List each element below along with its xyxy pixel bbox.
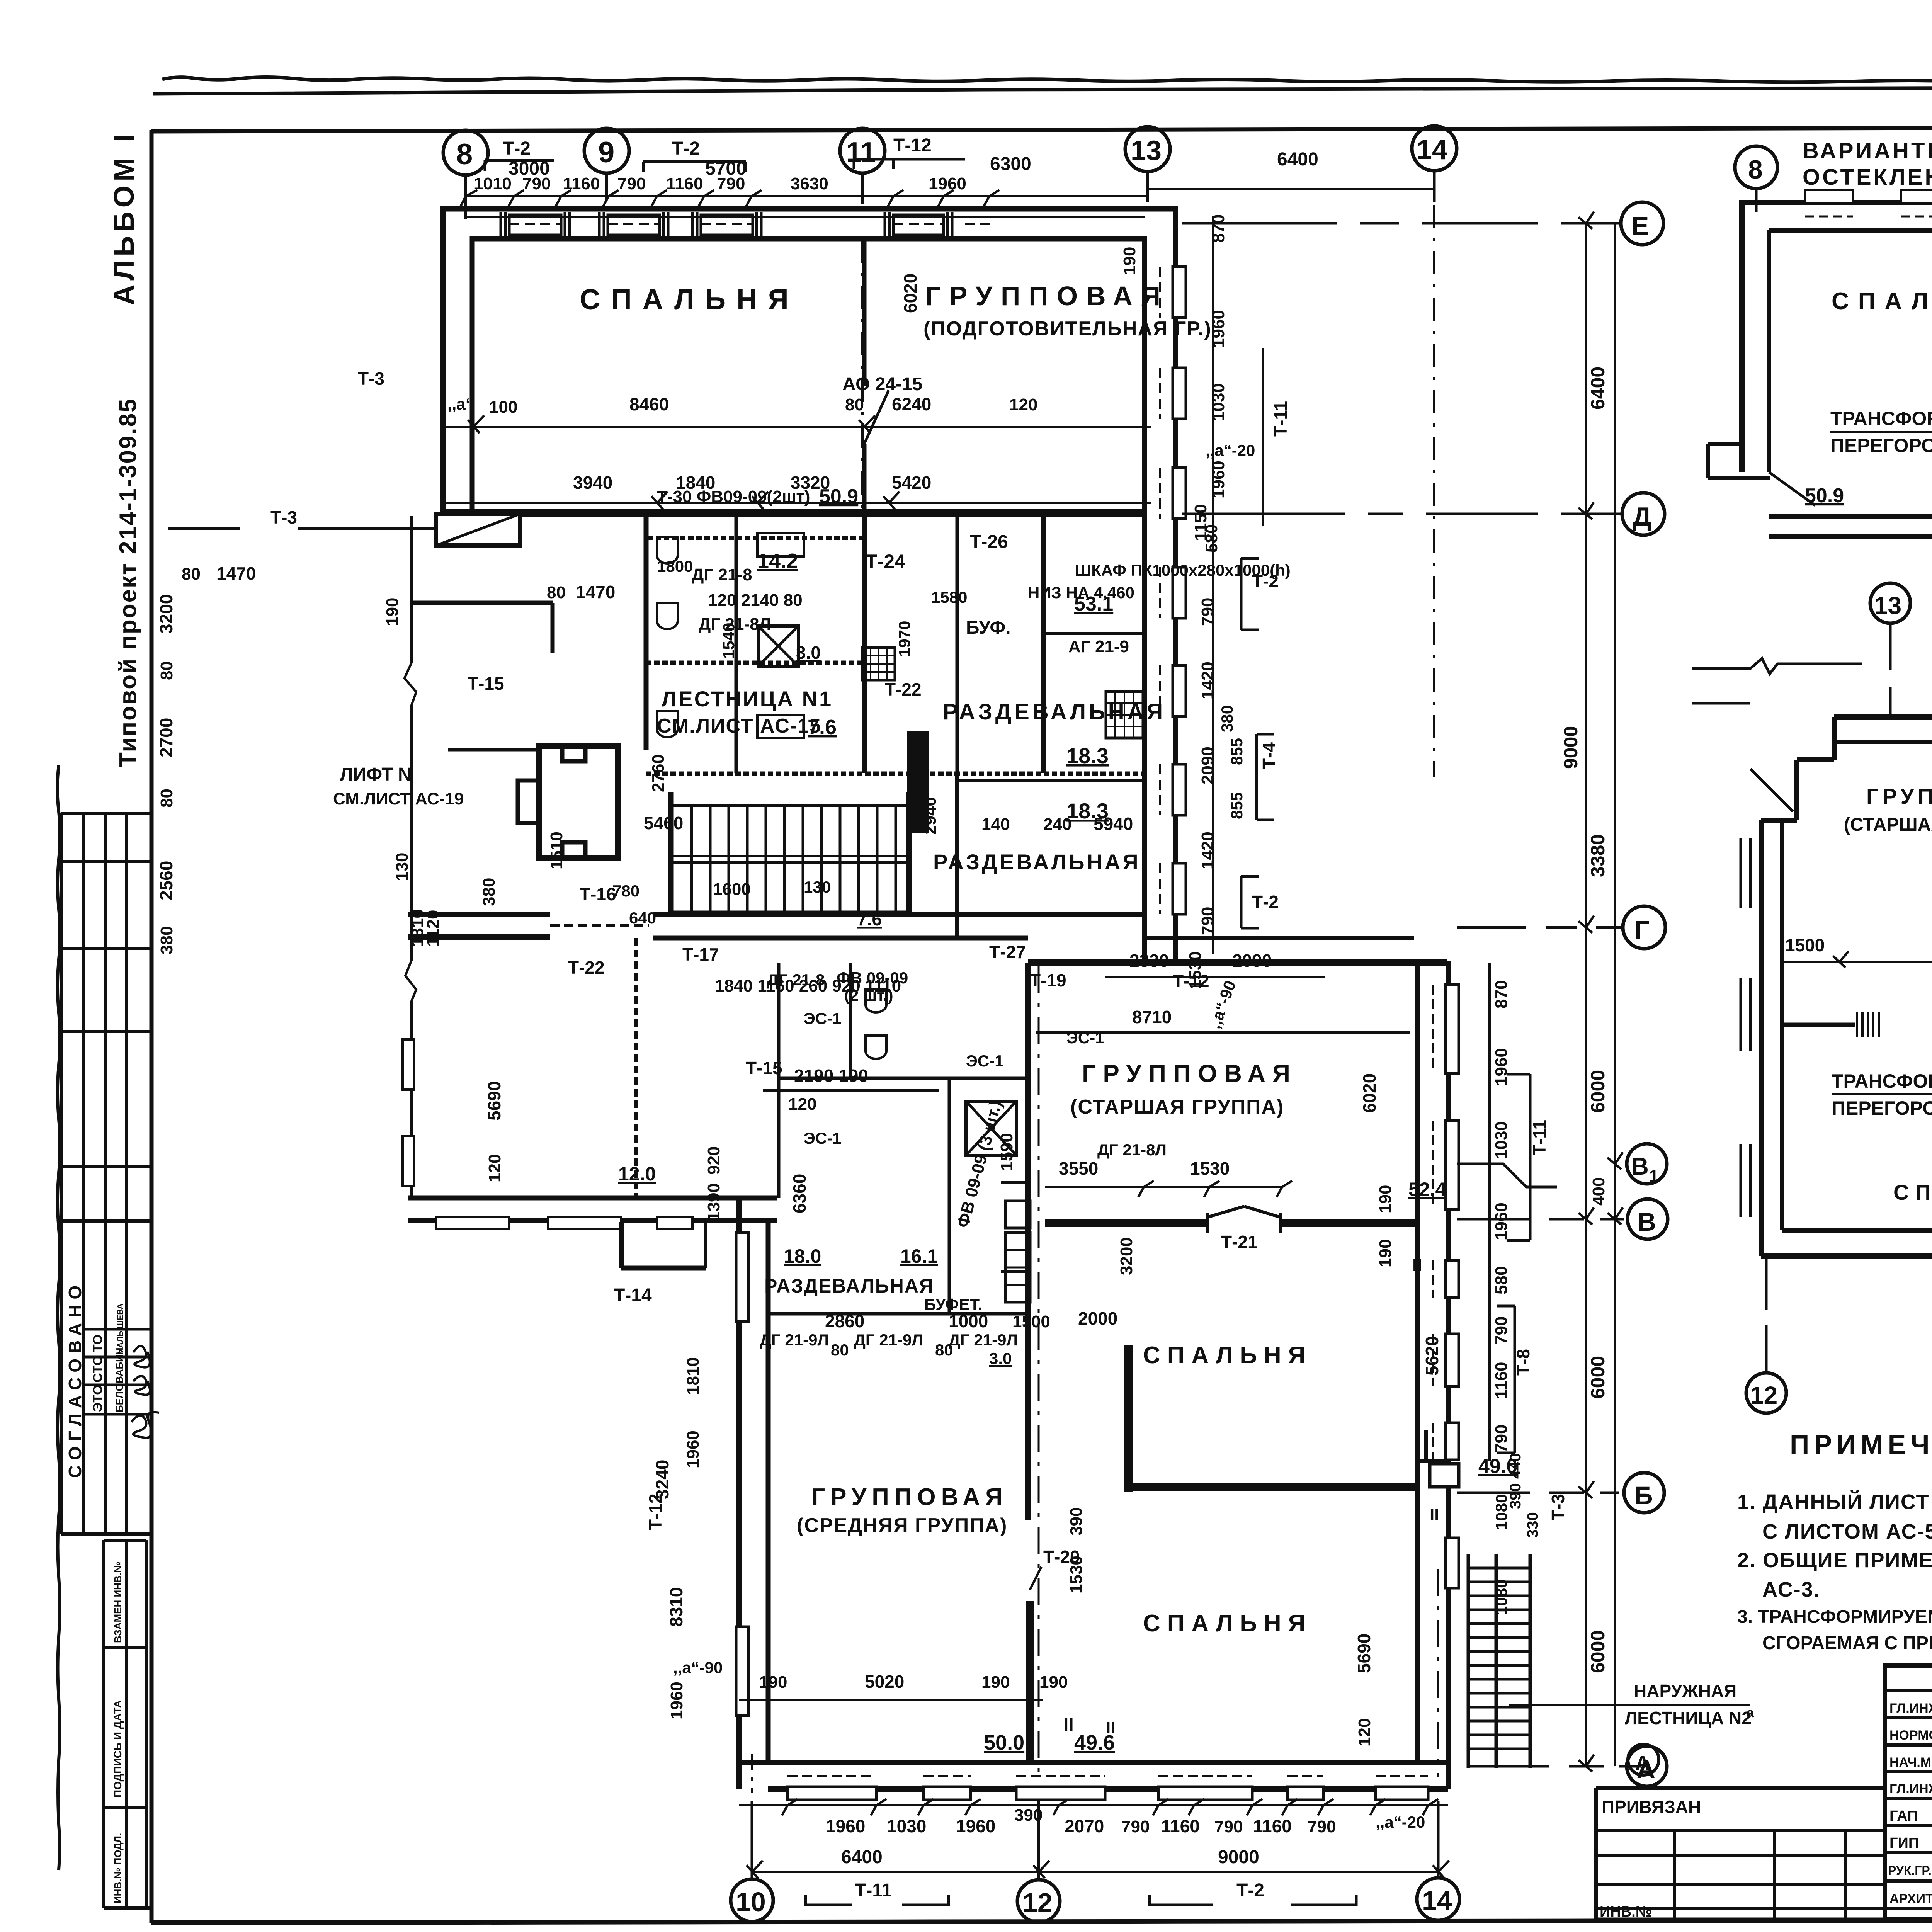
svg-text:,,а“-90: ,,а“-90: [673, 1658, 723, 1677]
svg-text:790: 790: [1492, 1316, 1511, 1345]
svg-text:ЛЕСТНИЦА N2: ЛЕСТНИЦА N2: [1625, 1708, 1752, 1728]
svg-text:790: 790: [1121, 1817, 1150, 1836]
svg-text:ПРИВЯЗАН: ПРИВЯЗАН: [1602, 1797, 1701, 1817]
svg-text:190: 190: [1039, 1673, 1068, 1692]
svg-text:6400: 6400: [1587, 367, 1609, 410]
svg-text:7.6: 7.6: [808, 716, 837, 739]
partition from lift to stair: [644, 515, 649, 750]
svg-text:Т-11: Т-11: [1270, 401, 1291, 437]
svg-text:Т-3: Т-3: [358, 369, 384, 389]
А axis circle left of titleblock: [1628, 1744, 1659, 1775]
svg-text:3. ТРАНСФОРМИРУЕМАЯ ПЕРЕГОРОД: 3. ТРАНСФОРМИРУЕМАЯ ПЕРЕГОРОДКА -ТРУДНО-: [1737, 1607, 1932, 1627]
right window band outer: [1173, 206, 1178, 963]
svg-text:190: 190: [1120, 247, 1139, 275]
svg-text:190: 190: [759, 1673, 787, 1692]
раздевальная 18.0/16.1 block: [777, 963, 781, 1198]
svg-text:ТРАНСФОРМИРУЕМАЯ: ТРАНСФОРМИРУЕМАЯ: [1832, 1070, 1932, 1092]
svg-text:190: 190: [1376, 1239, 1395, 1267]
svg-text:НОРМОКОНТР.: НОРМОКОНТР.: [1889, 1728, 1932, 1743]
svg-text:9: 9: [598, 136, 614, 169]
svg-text:СПАЛЬНЯ: СПАЛЬНЯ: [1832, 288, 1932, 315]
svg-text:ТРАНСФОРМИРУЕМАЯ: ТРАНСФОРМИРУЕМАЯ: [1830, 408, 1932, 429]
right window band inner: [1142, 236, 1147, 963]
svg-text:Т-3: Т-3: [1548, 1494, 1568, 1520]
svg-text:6000: 6000: [1587, 1070, 1609, 1113]
svg-text:870: 870: [1492, 980, 1511, 1009]
top wall: [1740, 200, 1932, 205]
left wall inner: [470, 236, 475, 512]
svg-text:ГИП: ГИП: [1889, 1835, 1919, 1851]
svg-text:380: 380: [157, 926, 176, 954]
svg-text:МАЛЫШЕВА: МАЛЫШЕВА: [116, 1303, 125, 1355]
svg-text:2700: 2700: [156, 718, 176, 757]
left wall outer: [440, 206, 446, 515]
outer box: [1885, 1665, 1932, 1920]
svg-text:6000: 6000: [1587, 1630, 1609, 1673]
svg-text:9000: 9000: [1218, 1847, 1259, 1867]
svg-text:СТО: СТО: [90, 1355, 105, 1383]
svg-text:14: 14: [1422, 1886, 1452, 1916]
svg-text:1: 1: [1649, 1167, 1658, 1185]
svg-text:790: 790: [522, 174, 551, 193]
svg-text:II: II: [1063, 1715, 1074, 1735]
svg-text:780: 780: [612, 882, 639, 900]
svg-text:130: 130: [393, 853, 412, 881]
axis circles: [1870, 583, 1910, 623]
torn paper top edge: [162, 77, 1932, 83]
svg-text:ЛИФТ N: ЛИФТ N: [340, 764, 412, 785]
svg-text:2090: 2090: [1232, 951, 1272, 971]
break line left edge: [405, 516, 416, 1198]
svg-text:1030: 1030: [1209, 383, 1228, 421]
svg-text:В: В: [1631, 1153, 1649, 1180]
toilet fixtures: [657, 537, 678, 737]
svg-text:120 2140 80: 120 2140 80: [708, 591, 803, 610]
lower label strip: [102, 1540, 105, 1908]
svg-text:а: а: [1747, 1706, 1754, 1720]
svg-text:12: 12: [1750, 1381, 1777, 1409]
svg-text:870: 870: [1209, 214, 1228, 243]
svg-text:ОСТЕКЛЕННОЙ ПЕРЕГОРОДКИ: ОСТЕКЛЕННОЙ ПЕРЕГОРОДКИ: [1803, 165, 1932, 190]
svg-text:Б: Б: [1634, 1481, 1653, 1510]
svg-text:2940: 2940: [921, 797, 940, 835]
svg-text:Т-11: Т-11: [855, 1880, 892, 1901]
names table horizontals: [1885, 1689, 1932, 1692]
svg-text:СПАЛЬНЯ: СПАЛЬНЯ: [580, 283, 799, 315]
svg-text:5690: 5690: [1354, 1634, 1374, 1673]
svg-text:ПОДПИСЬ И ДАТА: ПОДПИСЬ И ДАТА: [112, 1700, 124, 1798]
svg-text:330: 330: [1524, 1512, 1541, 1538]
svg-text:(СТАРШАЯ ГРУППА): (СТАРШАЯ ГРУППА): [1844, 815, 1932, 835]
svg-text:1510: 1510: [547, 832, 566, 869]
right axis circles main plan: [1621, 202, 1663, 245]
svg-text:80: 80: [845, 395, 864, 414]
svg-text:80: 80: [935, 1341, 953, 1359]
svg-text:1810: 1810: [684, 1357, 702, 1395]
svg-text:ИНВ.№: ИНВ.№: [1600, 1904, 1652, 1920]
svg-text:Т-21: Т-21: [1221, 1232, 1258, 1252]
svg-text:СГОРАЕМАЯ С ПРЕДЕЛОМ ОГНЕСТО: СГОРАЕМАЯ С ПРЕДЕЛОМ ОГНЕСТОЙКОСТИ 1Ч.: [1762, 1632, 1932, 1653]
svg-text:190: 190: [1376, 1185, 1395, 1213]
svg-text:ПРИМЕЧАНИЯ: ПРИМЕЧАНИЯ: [1790, 1429, 1932, 1459]
svg-text:3200: 3200: [1117, 1237, 1136, 1275]
svg-text:СПАЛЬНЯ: СПАЛЬНЯ: [1143, 1610, 1312, 1637]
svg-text:1010: 1010: [474, 174, 512, 193]
svg-text:8460: 8460: [629, 394, 669, 414]
svg-text:8: 8: [456, 138, 473, 171]
svg-text:ИНВ.№ ПОДЛ.: ИНВ.№ ПОДЛ.: [112, 1833, 124, 1903]
svg-text:СМ.ЛИСТ АС-19: СМ.ЛИСТ АС-19: [333, 789, 464, 808]
svg-text:(СТАРШАЯ ГРУППА): (СТАРШАЯ ГРУППА): [1070, 1096, 1284, 1118]
svg-text:Т-2: Т-2: [1236, 1880, 1264, 1901]
svg-text:11: 11: [846, 137, 876, 168]
svg-text:3380: 3380: [1587, 834, 1609, 877]
svg-text:1500: 1500: [1785, 935, 1825, 955]
svg-text:2190 190: 2190 190: [794, 1066, 868, 1086]
svg-text:ДГ 21-9Л: ДГ 21-9Л: [760, 1331, 829, 1349]
left wall: [1739, 200, 1745, 472]
svg-text:1030: 1030: [887, 1816, 926, 1836]
svg-text:ЭС-1: ЭС-1: [804, 1129, 842, 1147]
svg-text:6240: 6240: [892, 394, 931, 414]
svg-text:Т-27: Т-27: [989, 942, 1026, 962]
svg-text:390: 390: [1067, 1507, 1086, 1536]
top wall outer line: [440, 206, 1175, 212]
svg-text:790: 790: [717, 174, 745, 193]
спальня / спальня divider: [1124, 1345, 1133, 1492]
svg-text:ПЕРЕГОРОДКА - 5.3: ПЕРЕГОРОДКА - 5.3: [1830, 435, 1932, 456]
svg-text:80: 80: [157, 789, 176, 808]
svg-text:5460: 5460: [644, 813, 683, 833]
svg-text:1960: 1960: [1209, 461, 1228, 498]
bottom wall: [736, 1760, 1448, 1765]
svg-text:ЭС-1: ЭС-1: [966, 1052, 1004, 1070]
svg-text:1600: 1600: [713, 880, 751, 899]
svg-text:РАЗДЕВАЛЬНАЯ: РАЗДЕВАЛЬНАЯ: [943, 699, 1166, 724]
svg-text:1960: 1960: [1209, 310, 1228, 348]
svg-text:12.0: 12.0: [618, 1163, 656, 1185]
svg-text:(2 шт.): (2 шт.): [844, 986, 893, 1004]
svg-text:580: 580: [1492, 1266, 1511, 1294]
svg-text:9000: 9000: [1560, 726, 1582, 769]
buffet hatch square: [862, 648, 895, 680]
svg-text:3.0: 3.0: [989, 1349, 1012, 1367]
svg-text:1580: 1580: [931, 588, 967, 606]
svg-text:1840: 1840: [676, 473, 715, 493]
svg-text:БЕЛОВ: БЕЛОВ: [114, 1376, 125, 1412]
svg-text:С ЛИСТОМ АС-5.: С ЛИСТОМ АС-5.: [1762, 1520, 1932, 1543]
svg-text:1960: 1960: [1492, 1202, 1511, 1240]
svg-text:100: 100: [489, 398, 517, 417]
svg-text:(ПОДГОТОВИТЕЛЬНАЯ ГР.): (ПОДГОТОВИТЕЛЬНАЯ ГР.): [923, 318, 1212, 340]
svg-text:400: 400: [1589, 1177, 1608, 1206]
svg-text:ЭС-1: ЭС-1: [804, 1009, 842, 1027]
svg-text:БУФ.: БУФ.: [966, 617, 1011, 638]
svg-text:СОГЛАСОВАНО: СОГЛАСОВАНО: [65, 1280, 85, 1478]
буфет partition: [1001, 1270, 1028, 1273]
axis circles: [1735, 146, 1777, 189]
svg-text:ДГ 21-9Л: ДГ 21-9Л: [854, 1331, 923, 1349]
svg-text:190: 190: [981, 1673, 1010, 1692]
svg-text:Т-3: Т-3: [270, 507, 297, 527]
svg-text:Т-19: Т-19: [1030, 970, 1066, 990]
svg-text:13: 13: [1131, 135, 1162, 166]
bottom wall of upper block: [443, 509, 1145, 517]
right window dim chain (x3850) lower block: [1488, 963, 1491, 1461]
svg-text:5020: 5020: [865, 1672, 904, 1692]
svg-text:РАЗДЕВАЛЬНАЯ: РАЗДЕВАЛЬНАЯ: [933, 850, 1141, 874]
svg-text:ДГ 21-8: ДГ 21-8: [767, 971, 825, 989]
svg-text:790: 790: [1492, 1425, 1511, 1453]
svg-text:Д: Д: [1633, 502, 1651, 531]
В axis wall with windows: [408, 1196, 777, 1201]
left step walls: [1832, 717, 1837, 760]
svg-text:Т-2: Т-2: [503, 138, 531, 159]
svg-text:5420: 5420: [892, 473, 931, 493]
svg-text:16.1: 16.1: [900, 1245, 938, 1267]
svg-text:2000: 2000: [1078, 1308, 1117, 1328]
svg-text:ГРУППОВАЯ: ГРУППОВАЯ: [811, 1484, 1008, 1510]
storage X box: [758, 626, 798, 666]
svg-text:790: 790: [1214, 1817, 1243, 1836]
svg-text:НАРУЖНАЯ: НАРУЖНАЯ: [1634, 1681, 1736, 1701]
svg-text:190: 190: [383, 598, 402, 626]
svg-text:13: 13: [1874, 592, 1901, 619]
svg-text:130: 130: [804, 878, 831, 896]
svg-text:СПАЛЬНЯ: СПАЛЬНЯ: [1893, 1180, 1932, 1204]
svg-text:Т-22: Т-22: [568, 957, 605, 978]
svg-text:380: 380: [1218, 705, 1236, 732]
left extension: [1596, 1786, 1885, 1790]
svg-text:80: 80: [157, 661, 176, 680]
top axis circles main plan: [443, 130, 488, 175]
svg-text:II: II: [1412, 1255, 1422, 1275]
svg-text:12: 12: [1022, 1888, 1053, 1918]
top wall: [1834, 714, 1932, 720]
left lower stubs: [1708, 444, 1770, 478]
svg-text:Т-12: Т-12: [1173, 971, 1209, 991]
axis dash-dot lines to circles: [1182, 222, 1621, 225]
svg-text:ДГ 21-9Л: ДГ 21-9Л: [949, 1331, 1018, 1349]
svg-text:1160: 1160: [1161, 1816, 1200, 1836]
svg-text:18.3: 18.3: [1066, 743, 1109, 768]
svg-text:2860: 2860: [825, 1311, 864, 1331]
svg-text:18.0: 18.0: [784, 1245, 821, 1267]
svg-text:14: 14: [1417, 134, 1447, 165]
svg-text:А: А: [1635, 1752, 1650, 1774]
svg-text:1960: 1960: [1492, 1048, 1511, 1086]
svg-text:РУК.ГР.ИНЖ.: РУК.ГР.ИНЖ.: [1888, 1864, 1932, 1878]
svg-text:Т-4: Т-4: [1259, 742, 1279, 769]
svg-text:Г: Г: [1634, 915, 1650, 945]
svg-text:6400: 6400: [841, 1847, 883, 1867]
svg-text:80: 80: [547, 583, 566, 602]
svg-text:АС-3.: АС-3.: [1762, 1578, 1820, 1601]
svg-text:1030: 1030: [1492, 1121, 1511, 1159]
svg-text:5620: 5620: [1422, 1336, 1442, 1376]
svg-text:Т-12: Т-12: [645, 1493, 665, 1530]
svg-text:1540: 1540: [719, 623, 738, 659]
svg-text:Т-22: Т-22: [885, 679, 922, 699]
разд. partition right of stair: [955, 774, 959, 939]
left outer wall: [1759, 820, 1764, 1256]
svg-text:НАЧ.МАСТ.1: НАЧ.МАСТ.1: [1889, 1755, 1932, 1770]
svg-text:1800: 1800: [657, 557, 693, 575]
svg-text:Т-2: Т-2: [1252, 892, 1279, 912]
svg-text:ГЛ.ИНЖ.М.: ГЛ.ИНЖ.М.: [1889, 1782, 1932, 1796]
svg-text:СМ.ЛИСТ АС-15: СМ.ЛИСТ АС-15: [657, 715, 821, 737]
svg-text:120: 120: [1355, 1718, 1374, 1747]
svg-text:6000: 6000: [1587, 1356, 1609, 1399]
room divider axis 11: [862, 239, 867, 386]
svg-text:ДГ 21-8: ДГ 21-8: [692, 565, 752, 584]
svg-text:Т-16: Т-16: [580, 884, 616, 904]
svg-text:Т-26: Т-26: [970, 532, 1008, 552]
svg-text:6020: 6020: [1359, 1073, 1379, 1113]
svg-text:Т-15: Т-15: [746, 1058, 782, 1078]
svg-text:ФВ 09-09: ФВ 09-09: [837, 969, 908, 987]
bedroom bottom wall: [1769, 514, 1932, 519]
svg-text:ГРУППОВАЯ: ГРУППОВАЯ: [1082, 1060, 1297, 1087]
left outer wall: [736, 1198, 742, 1789]
svg-text:СПАЛЬНЯ: СПАЛЬНЯ: [1143, 1342, 1312, 1369]
approval table grid: [60, 813, 63, 1534]
svg-text:2070: 2070: [1065, 1816, 1104, 1836]
top wall glazing dashes: [509, 223, 996, 225]
svg-text:1500: 1500: [1012, 1312, 1050, 1331]
svg-text:50.0: 50.0: [984, 1731, 1024, 1754]
в-axis partition: [1782, 1023, 1855, 1027]
svg-text:,,а“-20: ,,а“-20: [1376, 1813, 1425, 1831]
svg-text:ДГ 21-8Л: ДГ 21-8Л: [1097, 1141, 1167, 1159]
svg-text:ГЛ.ИНЖ.ИН-ТА: ГЛ.ИНЖ.ИН-ТА: [1889, 1701, 1932, 1716]
frame top: [151, 126, 1932, 131]
svg-text:80: 80: [182, 565, 201, 583]
svg-text:II: II: [1106, 1718, 1115, 1737]
svg-text:2560: 2560: [156, 861, 176, 900]
svg-text:380: 380: [480, 878, 498, 906]
svg-text:1530: 1530: [1067, 1556, 1086, 1594]
svg-text:3320: 3320: [791, 473, 830, 493]
svg-text:2760: 2760: [649, 754, 668, 792]
svg-text:Т-8: Т-8: [1513, 1349, 1533, 1376]
svg-text:53.1: 53.1: [1074, 593, 1113, 615]
svg-text:1590: 1590: [997, 1133, 1016, 1171]
svg-text:6360: 6360: [789, 1174, 810, 1213]
svg-text:Т-17: Т-17: [682, 944, 719, 964]
top wall window sills: [501, 212, 952, 236]
svg-text:52.4: 52.4: [1408, 1179, 1446, 1200]
svg-text:8: 8: [1748, 155, 1763, 184]
svg-text:1390: 1390: [704, 1183, 723, 1221]
right vertical dim chain lines: [1585, 223, 1587, 1766]
stair treads: [692, 806, 896, 912]
svg-text:ГРУППОВАЯ: ГРУППОВАЯ: [1866, 784, 1932, 808]
svg-text:1080: 1080: [1492, 1579, 1510, 1615]
svg-text:,,а“: ,,а“: [447, 395, 474, 413]
svg-text:АЛЬБОМ I: АЛЬБОМ I: [108, 130, 140, 305]
svg-text:240: 240: [1043, 815, 1071, 834]
наружная лестница: [1467, 1554, 1470, 1768]
signatures scribbles: [133, 1346, 150, 1367]
svg-text:3550: 3550: [1059, 1158, 1098, 1179]
svg-text:3240: 3240: [652, 1460, 672, 1499]
top wall inner line: [472, 236, 1145, 241]
svg-text:390 440: 390 440: [1507, 1453, 1524, 1509]
svg-text:6020: 6020: [900, 274, 920, 313]
svg-text:6400: 6400: [1277, 149, 1318, 170]
svg-text:ВЗАМЕН ИНВ.№: ВЗАМЕН ИНВ.№: [112, 1561, 124, 1643]
svg-text:7.6: 7.6: [857, 909, 882, 929]
wall below stub: [412, 601, 553, 605]
старшая группа / спальня divider: [1045, 1219, 1207, 1227]
top border line: [153, 86, 1932, 94]
svg-text:Т-2: Т-2: [672, 138, 700, 159]
svg-text:ГРУППОВАЯ: ГРУППОВАЯ: [925, 281, 1169, 311]
svg-text:(СРЕДНЯЯ ГРУППА): (СРЕДНЯЯ ГРУППА): [797, 1514, 1007, 1537]
svg-text:1530: 1530: [1190, 1158, 1230, 1179]
toilets block partitions: [735, 515, 738, 773]
svg-text:1960: 1960: [667, 1682, 686, 1719]
svg-text:790: 790: [617, 174, 646, 193]
right outer wall with windows: [1446, 961, 1451, 1789]
svg-text:1470: 1470: [576, 582, 615, 602]
svg-text:Типовой проект 214-1-309.85: Типовой проект 214-1-309.85: [115, 398, 141, 767]
bottom wall: [1761, 1253, 1932, 1259]
шкаф line рядом со спальней: [1005, 1233, 1030, 1302]
frame left: [150, 130, 154, 1923]
shelf wall right: [1043, 632, 1145, 635]
svg-text:1120: 1120: [423, 910, 442, 947]
svg-text:1960: 1960: [826, 1816, 865, 1836]
svg-text:Т-12: Т-12: [893, 135, 932, 156]
svg-text:1. ДАННЫЙ ЛИСТ СМ. СОВМЕСТНО: 1. ДАННЫЙ ЛИСТ СМ. СОВМЕСТНО: [1737, 1490, 1932, 1514]
svg-text:5940: 5940: [1094, 814, 1133, 834]
svg-text:1960: 1960: [684, 1430, 702, 1468]
svg-text:ТО: ТО: [90, 1335, 105, 1352]
torn paper left edge lower: [58, 765, 60, 1870]
svg-text:1970: 1970: [895, 621, 913, 657]
svg-text:5690: 5690: [484, 1081, 504, 1121]
svg-text:8310: 8310: [666, 1587, 686, 1627]
top break lines: [1692, 658, 1862, 703]
svg-text:3940: 3940: [573, 473, 612, 493]
bottom axis circles: [731, 1879, 773, 1922]
svg-text:БУФЕТ.: БУФЕТ.: [924, 1295, 982, 1313]
svg-text:РАЗДЕВАЛЬНАЯ: РАЗДЕВАЛЬНАЯ: [764, 1275, 934, 1297]
svg-text:ВАРИАНТЫ УСТРОЙСТВА ТРАНСФОРМИ: ВАРИАНТЫ УСТРОЙСТВА ТРАНСФОРМИРУЕМОЙ: [1803, 138, 1932, 163]
left side window marks: [1741, 838, 1750, 1217]
svg-text:640: 640: [629, 909, 656, 927]
svg-text:1960: 1960: [956, 1816, 995, 1836]
49.0 door stub top right: [1417, 1430, 1448, 1461]
door leaf: [864, 390, 889, 444]
svg-text:920: 920: [704, 1146, 723, 1175]
svg-text:855: 855: [1228, 738, 1246, 765]
svg-text:2. ОБЩИЕ ПРИМЕЧАНИЯ НА ЛИСТЕ: 2. ОБЩИЕ ПРИМЕЧАНИЯ НА ЛИСТЕ: [1737, 1549, 1932, 1572]
svg-text:50.9: 50.9: [1805, 485, 1844, 507]
svg-text:10: 10: [736, 1887, 766, 1917]
svg-text:80: 80: [831, 1341, 849, 1359]
svg-text:3.0: 3.0: [796, 643, 821, 663]
left wing window sills: [403, 1039, 414, 1090]
right band window sills: [1173, 267, 1186, 318]
svg-text:120: 120: [485, 1154, 504, 1182]
svg-text:ЭТО: ЭТО: [90, 1384, 105, 1412]
svg-text:Т-15: Т-15: [468, 673, 504, 694]
svg-text:ГАП: ГАП: [1889, 1808, 1918, 1824]
svg-text:1150: 1150: [1191, 504, 1210, 541]
